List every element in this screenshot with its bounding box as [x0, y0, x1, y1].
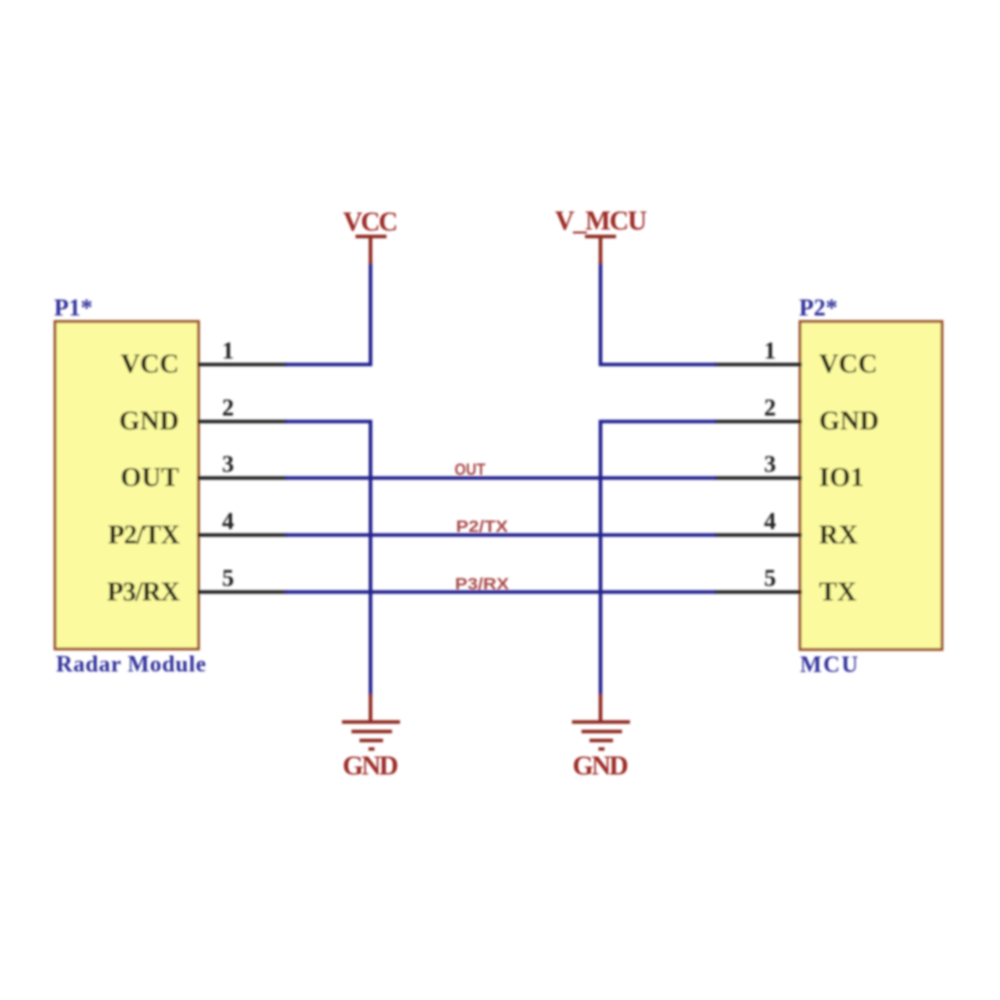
wire net V_MCU: power to P2 pin 1	[601, 262, 717, 365]
svg-text:1: 1	[222, 339, 234, 365]
P2 pin 1 VCC	[714, 339, 878, 379]
P1 pin 2 GND	[119, 396, 287, 436]
P2 pin 4 RX	[714, 509, 858, 550]
svg-text:P1*: P1*	[54, 296, 93, 322]
wire net P3/RX: P1 pin 5 to P2 pin 5	[285, 590, 716, 594]
wire net P2/TX: P1 pin 4 to P2 pin 4	[285, 533, 716, 537]
ground symbol GND (right)	[572, 694, 630, 781]
svg-text:3: 3	[764, 452, 776, 478]
svg-text:P3/RX: P3/RX	[455, 575, 510, 594]
svg-text:4: 4	[222, 509, 234, 535]
svg-text:P2*: P2*	[799, 296, 838, 322]
svg-text:V_MCU: V_MCU	[555, 206, 647, 236]
svg-text:P3/RX: P3/RX	[107, 577, 181, 607]
connector P2 body	[800, 322, 942, 650]
wire net GND: P1 pin 2 down to ground	[285, 422, 371, 697]
svg-text:GND: GND	[573, 751, 629, 781]
power symbol V_MCU	[555, 206, 647, 265]
svg-text:3: 3	[222, 452, 234, 478]
svg-text:OUT: OUT	[120, 462, 179, 492]
wire net GND: P2 pin 2 down to ground	[601, 422, 717, 697]
svg-text:TX: TX	[819, 577, 857, 607]
svg-text:Radar Module: Radar Module	[56, 652, 206, 677]
svg-text:P2/TX: P2/TX	[456, 517, 509, 536]
svg-text:VCC: VCC	[343, 207, 398, 237]
svg-text:GND: GND	[343, 751, 399, 781]
svg-text:5: 5	[764, 566, 776, 592]
ground symbol GND (left)	[342, 694, 400, 781]
svg-text:GND: GND	[119, 406, 179, 436]
svg-text:5: 5	[222, 566, 234, 592]
wire net OUT: P1 pin 3 to P2 pin 3	[285, 476, 716, 480]
P1 pin 5 P3/RX	[107, 566, 287, 607]
svg-text:OUT: OUT	[455, 460, 487, 479]
wire net VCC: P1 pin 1 to VCC power	[285, 262, 371, 365]
svg-text:VCC: VCC	[819, 349, 878, 379]
P1 pin 3 OUT	[120, 452, 287, 492]
svg-text:IO1: IO1	[819, 462, 864, 492]
svg-text:2: 2	[764, 396, 776, 422]
P1 pin 4 P2/TX	[108, 509, 287, 550]
P1 pin 1 VCC	[121, 339, 288, 379]
svg-text:1: 1	[764, 339, 776, 365]
svg-text:2: 2	[222, 396, 234, 422]
svg-text:MCU: MCU	[800, 652, 858, 677]
P2 pin 5 TX	[714, 566, 857, 607]
connector P1 body	[55, 322, 199, 650]
svg-text:VCC: VCC	[121, 349, 180, 379]
P2 pin 3 IO1	[714, 452, 864, 492]
svg-text:P2/TX: P2/TX	[108, 520, 181, 550]
power symbol VCC	[343, 207, 398, 265]
P2 pin 2 GND	[714, 396, 879, 436]
svg-text:4: 4	[764, 509, 776, 535]
svg-text:GND: GND	[819, 406, 879, 436]
svg-text:RX: RX	[819, 520, 858, 550]
